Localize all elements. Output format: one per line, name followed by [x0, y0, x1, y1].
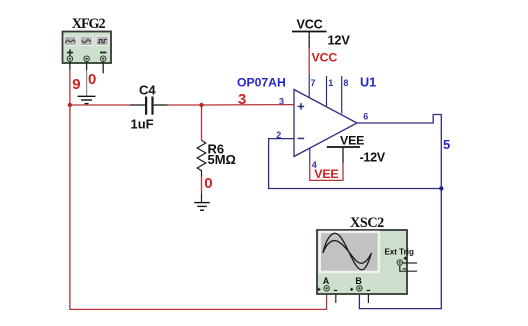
ground symbol at XFG2	[78, 96, 96, 103]
scope A minus pin stub	[335, 294, 337, 303]
XSC2 trace A (outer sine)	[323, 233, 372, 270]
svg-text:-12V: -12V	[360, 150, 386, 164]
label 12V	[328, 33, 351, 48]
pin number 6	[363, 112, 368, 122]
wire op-amp output net 5 (navy)	[357, 115, 441, 189]
Ext Trig plus pin	[403, 262, 417, 264]
svg-text:VEE: VEE	[340, 133, 364, 147]
VEE power symbol	[327, 147, 360, 163]
wire C4 right lead to node (red)	[168, 104, 202, 106]
label XFG2	[72, 16, 106, 32]
svg-text:7: 7	[311, 78, 316, 88]
wire VCC to op-amp pin 7 (red segment)	[308, 48, 310, 74]
label 1uF	[131, 116, 154, 131]
svg-text:Ext Trig: Ext Trig	[385, 248, 414, 257]
net label 3	[238, 91, 246, 108]
svg-text:1uF: 1uF	[131, 116, 154, 131]
label C4	[139, 82, 156, 97]
wire pin 4 to VEE (red)	[310, 163, 343, 180]
svg-text:8: 8	[343, 78, 348, 88]
label R6	[208, 142, 225, 157]
wire node down left side to scope A (red)	[70, 105, 327, 309]
XFG2 minus marking	[100, 52, 106, 54]
net label 5	[443, 137, 450, 152]
scope B plus mark	[350, 288, 353, 291]
svg-text:B: B	[355, 276, 362, 286]
XFG2 sine button	[64, 36, 76, 45]
svg-text:3: 3	[238, 91, 246, 108]
XFG2 square button	[96, 36, 108, 45]
op-amp U1 triangle	[294, 90, 357, 157]
op-amp pin 8	[341, 76, 343, 114]
junction node at (70,105)	[68, 103, 72, 107]
svg-text:3: 3	[279, 96, 284, 106]
junction node at (201.5,105)	[199, 103, 203, 107]
net label VCC (red)	[312, 51, 338, 65]
svg-text:A: A	[323, 276, 330, 286]
Ext Trig minus mark	[403, 268, 406, 269]
wire XFG2 plus down to node (red)	[69, 62, 71, 106]
net label 9	[72, 76, 80, 93]
svg-text:VCC: VCC	[312, 51, 338, 65]
pin number 7	[311, 78, 316, 88]
XFG2 plus terminal	[67, 56, 72, 61]
XSC2 trace B (inner sine)	[323, 241, 372, 264]
svg-text:5: 5	[443, 137, 450, 152]
XFG2 plus marking	[67, 49, 73, 55]
svg-text:5MΩ: 5MΩ	[208, 152, 236, 167]
wire feedback to pin 2 (navy)	[269, 139, 442, 189]
label B	[355, 276, 362, 286]
label OP07AH	[237, 76, 286, 90]
wire net 5 down to scope B (navy)	[359, 189, 441, 309]
label U1	[360, 76, 376, 90]
pin number 1	[328, 78, 333, 88]
net label 0 at R6	[204, 175, 212, 192]
scope A minus mark	[334, 290, 337, 291]
label A	[323, 276, 330, 286]
svg-text:XFG2: XFG2	[72, 16, 106, 32]
junction node at (441,188.5)	[439, 186, 443, 190]
label -12V	[360, 150, 386, 164]
XSC2 screen	[320, 232, 379, 272]
scope B minus mark	[367, 290, 370, 291]
svg-text:U1: U1	[360, 76, 376, 90]
resistor R6	[197, 140, 206, 176]
wire XFG2 common to ground (net 0, gray)	[86, 62, 88, 97]
XFG2 triangle button	[80, 36, 92, 45]
Ext Trig plus mark	[404, 257, 407, 260]
capacitor C4	[130, 97, 168, 115]
svg-text:6: 6	[363, 112, 368, 122]
pin number 3	[279, 96, 284, 106]
wire node down to R6 (red)	[201, 105, 203, 140]
oscilloscope XSC2 body	[317, 230, 407, 294]
label Ext Trig	[385, 248, 414, 257]
op-amp pin 1	[326, 76, 328, 106]
label XSC2	[350, 215, 384, 231]
svg-text:9: 9	[72, 76, 80, 93]
pin number 2	[276, 130, 281, 140]
scope A plus mark	[317, 288, 320, 291]
svg-text:VEE: VEE	[314, 167, 338, 181]
svg-text:C4: C4	[139, 82, 156, 97]
svg-text:VCC: VCC	[297, 17, 323, 31]
XFG2 minus terminal	[101, 56, 106, 61]
svg-text:12V: 12V	[328, 33, 351, 48]
svg-text:0: 0	[204, 175, 212, 192]
ground symbol at R6	[194, 193, 209, 210]
net label VEE (red)	[314, 167, 338, 181]
scope A terminal	[324, 286, 329, 291]
svg-text:1: 1	[328, 78, 333, 88]
pin number 8	[343, 78, 348, 88]
svg-text:XSC2: XSC2	[350, 215, 384, 231]
scope B minus pin stub	[367, 294, 369, 303]
wire node to C4 left lead (red)	[70, 104, 130, 106]
net label 0 at XFG2	[88, 71, 96, 88]
svg-text:0: 0	[88, 71, 96, 88]
op-amp pin 7	[308, 74, 310, 98]
Ext Trig terminal	[397, 260, 402, 265]
scope B terminal	[357, 286, 362, 291]
label VEE (black)	[340, 133, 364, 147]
VCC power symbol	[292, 32, 327, 49]
XFG2 common terminal	[84, 56, 89, 61]
label 5MOhm	[208, 152, 236, 167]
op-amp pin 4	[309, 148, 311, 163]
wire XFG2 minus stub	[102, 62, 104, 74]
pin number 4	[312, 160, 317, 170]
svg-text:OP07AH: OP07AH	[237, 76, 286, 90]
function generator XFG2 body	[63, 32, 112, 64]
label VCC (black)	[297, 17, 323, 31]
Ext Trig minus pin	[400, 265, 417, 271]
wire node to op-amp pin 3 (red, net 3)	[202, 104, 295, 106]
wire R6 to ground (red, net 0)	[201, 177, 203, 194]
